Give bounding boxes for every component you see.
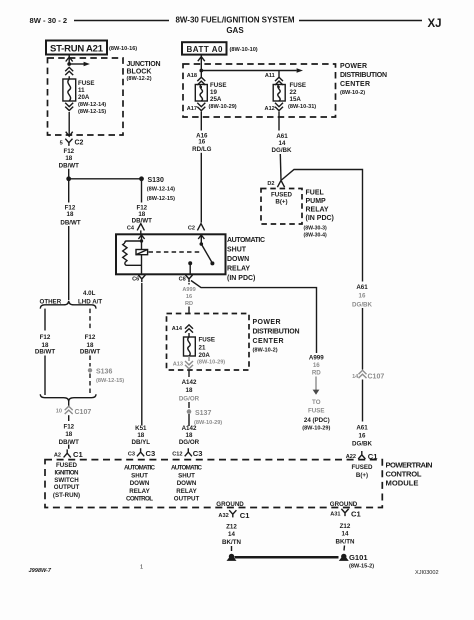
svg-text:A32: A32 [218, 513, 228, 519]
svg-text:PUMP: PUMP [306, 198, 327, 205]
terminal C8 [179, 275, 317, 353]
arrow down at JB edge [66, 132, 73, 137]
svg-text:OUTPUT: OUTPUT [54, 484, 80, 491]
wire F12 18 DB/WT (C2 to S130) [59, 148, 175, 202]
svg-text:GROUND: GROUND [330, 501, 358, 508]
wire F12 left branch down [60, 181, 80, 300]
splice S136 [88, 368, 92, 372]
svg-text:BLOCK: BLOCK [127, 69, 152, 76]
svg-text:C12: C12 [172, 451, 182, 457]
svg-text:(8W-10-29): (8W-10-29) [302, 425, 330, 431]
svg-text:10: 10 [56, 409, 62, 415]
svg-text:FUSED: FUSED [352, 464, 374, 471]
svg-text:FUSED: FUSED [56, 462, 78, 469]
fuse 21 20A [184, 337, 196, 356]
connector C107 pin 10 [68, 402, 70, 407]
svg-text:A999: A999 [309, 355, 324, 362]
svg-text:DG/BK: DG/BK [352, 301, 372, 308]
svg-text:A61: A61 [276, 133, 288, 140]
svg-text:(8W-10-29): (8W-10-29) [197, 360, 225, 366]
resistor [125, 241, 142, 243]
arrow to other JB circuits [69, 63, 84, 65]
svg-text:CONTROL: CONTROL [386, 470, 422, 479]
svg-text:A18: A18 [187, 73, 197, 79]
svg-text:A17: A17 [187, 106, 197, 112]
svg-text:A2: A2 [54, 452, 61, 458]
svg-text:A61: A61 [356, 424, 368, 431]
relay coil branch entry arrow [138, 235, 144, 239]
fuel pump relay (in PDC) [261, 189, 334, 239]
svg-text:Z12: Z12 [226, 524, 237, 531]
node: JB feed junction [67, 62, 71, 66]
svg-text:C1: C1 [351, 510, 361, 519]
svg-text:18: 18 [186, 432, 193, 439]
svg-text:ST-RUN A21: ST-RUN A21 [50, 44, 104, 55]
svg-text:RELAY: RELAY [227, 266, 250, 273]
automatic shut down relay [116, 234, 265, 282]
svg-text:18: 18 [137, 432, 144, 439]
wire A61 16 DG/BK right column [346, 284, 385, 461]
svg-text:S137: S137 [195, 410, 211, 417]
svg-text:A11: A11 [265, 73, 275, 79]
svg-text:DG/OR: DG/OR [179, 439, 200, 446]
svg-text:(8W-10-29): (8W-10-29) [209, 104, 237, 110]
svg-text:OUTPUT: OUTPUT [174, 496, 200, 503]
svg-text:XJ: XJ [428, 18, 442, 30]
svg-text:DISTRIBUTION: DISTRIBUTION [253, 329, 300, 336]
svg-text:(8W-10-2): (8W-10-2) [340, 90, 365, 96]
svg-text:8W - 30 - 2: 8W - 30 - 2 [30, 16, 68, 25]
svg-text:4.0L: 4.0L [83, 290, 96, 297]
svg-text:DISTRIBUTION: DISTRIBUTION [340, 72, 387, 79]
svg-text:FUEL: FUEL [306, 190, 325, 197]
svg-text:(8W-12-15): (8W-12-15) [147, 196, 175, 202]
svg-text:RD: RD [312, 369, 321, 376]
svg-text:A13: A13 [173, 361, 183, 367]
svg-text:18: 18 [67, 211, 74, 218]
svg-text:C1: C1 [240, 511, 250, 520]
svg-text:C8: C8 [179, 277, 186, 283]
node switch pivot [200, 242, 204, 246]
svg-text:MODULE: MODULE [386, 479, 419, 488]
svg-text:(8W-12-15): (8W-12-15) [96, 378, 124, 384]
svg-text:IGNITION: IGNITION [55, 469, 80, 476]
arrow up to BATT [198, 57, 205, 62]
power distribution center (fuse 21) [167, 314, 300, 371]
ground path A32 [218, 510, 250, 561]
svg-text:16: 16 [313, 362, 320, 369]
svg-text:(8W-10-16): (8W-10-16) [109, 46, 137, 52]
svg-text:18: 18 [65, 155, 72, 162]
svg-text:DB/YL: DB/YL [132, 439, 151, 446]
svg-text:AUTOMATIC: AUTOMATIC [227, 237, 265, 244]
battery feed BATT A0 [182, 42, 387, 117]
svg-text:FUSE: FUSE [308, 408, 325, 415]
svg-text:Z12: Z12 [340, 523, 351, 530]
split brace [40, 301, 96, 309]
svg-text:22: 22 [290, 89, 297, 96]
powertrain control module [45, 460, 433, 508]
svg-text:POWERTRAIN: POWERTRAIN [386, 461, 433, 470]
svg-text:POWER: POWER [340, 63, 367, 70]
svg-text:B(+): B(+) [356, 472, 368, 479]
power distribution center outline [183, 64, 336, 117]
svg-text:C2: C2 [75, 140, 84, 147]
svg-text:RD: RD [185, 301, 193, 307]
bus wire to fuse 22 and beyond [201, 70, 296, 72]
svg-text:G101: G101 [349, 553, 368, 562]
svg-text:A14: A14 [172, 326, 183, 332]
svg-text:B(+): B(+) [275, 199, 287, 206]
svg-text:(8W-10-2): (8W-10-2) [253, 348, 278, 354]
svg-text:16: 16 [359, 433, 366, 440]
svg-text:C3: C3 [146, 449, 156, 458]
wire F12 from S130 to ASD relay C4 [127, 181, 152, 234]
svg-text:A142: A142 [182, 379, 197, 386]
wire A16 16 RD/LG [188, 132, 212, 231]
wire to coil [141, 241, 143, 250]
svg-text:C3: C3 [193, 449, 203, 458]
svg-text:C4: C4 [127, 226, 135, 232]
svg-text:15A: 15A [290, 96, 302, 103]
svg-text:DB/WT: DB/WT [80, 348, 100, 355]
svg-text:F12: F12 [85, 334, 96, 341]
svg-text:A12: A12 [265, 106, 275, 112]
svg-text:DG/OR: DG/OR [179, 396, 200, 403]
svg-text:GROUND: GROUND [216, 501, 244, 508]
svg-text:C6: C6 [132, 277, 139, 283]
svg-text:C107: C107 [368, 374, 385, 381]
svg-text:11: 11 [78, 87, 85, 94]
svg-text:CONTROL: CONTROL [126, 496, 153, 503]
wire to C2 [68, 112, 70, 131]
svg-text:BK/TN: BK/TN [336, 539, 355, 546]
svg-text:DB/WT: DB/WT [59, 162, 79, 169]
svg-text:16: 16 [198, 139, 205, 146]
wire F12 4.0L branch (dashed) [89, 309, 91, 331]
svg-text:A999: A999 [182, 287, 195, 293]
fuse 11 20A [63, 79, 76, 101]
svg-text:RELAY: RELAY [306, 207, 329, 214]
svg-text:SWITCH: SWITCH [54, 477, 79, 484]
branch to PCM A22 feed [282, 170, 363, 282]
terminal chevrons below fuse 11 [65, 103, 73, 111]
svg-text:14: 14 [352, 374, 359, 380]
svg-text:BATT A0: BATT A0 [187, 45, 224, 54]
svg-text:14: 14 [228, 531, 235, 538]
relay switch entry arrow [198, 235, 204, 239]
svg-text:14: 14 [279, 140, 286, 147]
svg-text:(8W-12-14): (8W-12-14) [147, 187, 175, 193]
svg-text:SHUT: SHUT [178, 472, 195, 479]
wire from ST-RUN A21 [68, 55, 70, 64]
connector ST-RUN A21 [46, 41, 107, 55]
svg-text:20A: 20A [78, 94, 90, 101]
wire A61 14 DG/BK [267, 133, 362, 282]
merge brace [40, 394, 96, 401]
wire A142 18 DG/OR to S137 [172, 370, 222, 459]
svg-text:(IN PDC): (IN PDC) [227, 275, 255, 282]
engine variant split OTHER / 4.0L LHD A/T [35, 290, 124, 459]
svg-text:A61: A61 [356, 284, 368, 291]
svg-text:FUSE: FUSE [78, 80, 95, 87]
terminal chevrons above fuse 11 [65, 67, 73, 75]
svg-text:C107: C107 [75, 409, 92, 416]
svg-text:20A: 20A [199, 352, 211, 359]
svg-text:TO: TO [312, 399, 321, 406]
svg-text:F12: F12 [63, 148, 74, 155]
svg-text:DG/BK: DG/BK [352, 441, 372, 448]
svg-text:21: 21 [199, 345, 206, 352]
ground bus G101 [235, 556, 339, 559]
svg-text:POWER: POWER [253, 319, 281, 326]
relay coil [136, 250, 148, 255]
wire K51 18 DB/YL [128, 283, 155, 458]
svg-text:D2: D2 [267, 181, 274, 187]
splice S130 [139, 176, 144, 181]
svg-text:(8W-10-10): (8W-10-10) [230, 47, 258, 53]
svg-text:8W-30 FUEL/IGNITION SYSTEM: 8W-30 FUEL/IGNITION SYSTEM [176, 16, 295, 25]
svg-text:24 (PDC): 24 (PDC) [304, 417, 330, 424]
wire from BATT A0 [200, 55, 202, 71]
svg-text:DB/WT: DB/WT [60, 219, 80, 226]
fuse block: ST-RUN A21 feed [46, 41, 161, 147]
svg-text:19: 19 [210, 89, 217, 96]
svg-text:16: 16 [359, 293, 366, 300]
wire A999 to PDC fuse 21 [188, 283, 190, 285]
svg-text:(8W-10-29): (8W-10-29) [194, 420, 222, 426]
svg-text:(IN PDC): (IN PDC) [306, 215, 334, 222]
svg-text:J998W-7: J998W-7 [29, 568, 52, 574]
footer [29, 565, 439, 576]
svg-text:F12: F12 [63, 424, 74, 431]
svg-text:RELAY: RELAY [129, 488, 150, 495]
svg-text:(8W-12-14): (8W-12-14) [78, 102, 106, 108]
terminal C6 [132, 275, 145, 283]
fuse 19 25A in PDC [187, 71, 237, 131]
svg-text:DOWN: DOWN [227, 256, 249, 263]
node coil/resistor junction [140, 239, 143, 242]
svg-text:S136: S136 [96, 369, 112, 376]
svg-text:BK/TN: BK/TN [222, 539, 241, 546]
svg-text:SHUT: SHUT [131, 472, 148, 479]
svg-text:FUSED: FUSED [271, 191, 293, 198]
svg-text:AUTOMATIC: AUTOMATIC [171, 464, 203, 471]
svg-text:F12: F12 [40, 334, 51, 341]
svg-text:14: 14 [342, 531, 349, 538]
svg-text:FUSE: FUSE [199, 337, 216, 344]
svg-text:C2: C2 [188, 226, 195, 232]
svg-text:S130: S130 [148, 177, 164, 184]
actuation dashed link [149, 251, 202, 253]
svg-text:RELAY: RELAY [176, 488, 197, 495]
svg-text:25A: 25A [210, 96, 222, 103]
svg-text:(8W-30-4): (8W-30-4) [304, 232, 328, 238]
svg-text:AUTOMATIC: AUTOMATIC [124, 464, 156, 471]
splice S137 [187, 409, 192, 414]
svg-text:XJI03002: XJI03002 [415, 570, 439, 576]
node PDC feed junction [199, 69, 203, 73]
svg-text:A31: A31 [330, 512, 340, 518]
node splice junction [66, 176, 71, 181]
svg-text:C1: C1 [73, 450, 83, 459]
svg-text:DOWN: DOWN [130, 480, 150, 487]
wire A999 branch to fuse 24 [191, 281, 317, 354]
svg-text:(8W-15-2): (8W-15-2) [349, 564, 374, 570]
svg-text:(8W-12-15): (8W-12-15) [78, 109, 106, 115]
svg-text:(8W-12-2): (8W-12-2) [127, 76, 152, 82]
wire A999 16 RD to fuse 24 [302, 355, 330, 432]
svg-text:1: 1 [140, 565, 143, 571]
svg-text:DB/WT: DB/WT [35, 348, 55, 355]
header [30, 16, 442, 35]
svg-text:SHUT: SHUT [227, 247, 247, 254]
svg-text:C3: C3 [128, 451, 135, 457]
svg-text:(ST-RUN): (ST-RUN) [53, 492, 80, 499]
svg-text:DG/BK: DG/BK [272, 147, 292, 154]
svg-text:DOWN: DOWN [177, 480, 197, 487]
svg-text:18: 18 [186, 387, 193, 394]
junction block outline [48, 58, 124, 135]
svg-text:CENTER: CENTER [253, 338, 284, 345]
svg-text:18: 18 [65, 431, 72, 438]
svg-text:CENTER: CENTER [340, 81, 370, 88]
svg-text:(8W-30-3): (8W-30-3) [304, 226, 328, 232]
svg-text:JUNCTION: JUNCTION [127, 61, 161, 68]
svg-text:RD/LG: RD/LG [192, 146, 211, 153]
wire F12 OTHER branch [44, 309, 46, 331]
svg-text:5: 5 [60, 140, 63, 146]
fuse 22 15A in PDC [265, 73, 317, 131]
svg-text:(8W-10-31): (8W-10-31) [288, 104, 316, 110]
arrow up to ST-RUN [66, 57, 73, 62]
svg-text:16: 16 [186, 294, 192, 300]
svg-text:DB/WT: DB/WT [132, 218, 152, 225]
ground path A31 [330, 509, 374, 570]
connector BATT A0 [182, 42, 227, 54]
svg-text:GAS: GAS [226, 26, 244, 35]
